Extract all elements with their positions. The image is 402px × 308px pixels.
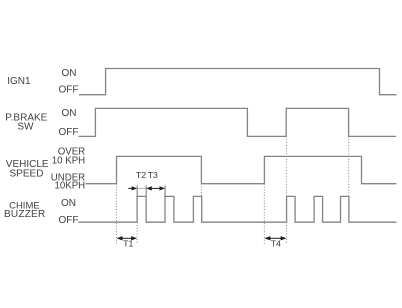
label T4 — [271, 239, 281, 249]
marker T2 T3 boundary verticals — [137, 186, 165, 197]
label OVER 10 KPH — [52, 147, 85, 167]
svg-text:SW: SW — [17, 122, 34, 133]
label CHIME BUZZER — [4, 200, 46, 220]
svg-text:ON: ON — [62, 68, 77, 79]
dotted extension pbrake rise2 x286.5 — [286, 136, 288, 244]
label P.BRAKE OFF — [59, 127, 79, 138]
label IGN1 — [7, 76, 31, 87]
label P.BRAKE SW — [5, 112, 47, 132]
label CHIME ON — [61, 198, 76, 209]
svg-text:10KPH: 10KPH — [54, 180, 85, 191]
wire P.BRAKE SW waveform — [79, 108, 397, 136]
svg-text:SPEED: SPEED — [10, 168, 44, 179]
svg-text:T1: T1 — [123, 239, 133, 249]
svg-text:OFF: OFF — [59, 127, 79, 138]
svg-text:IGN1: IGN1 — [7, 76, 31, 87]
dotted extension pbrake fall2 x348.7 — [348, 136, 350, 196]
svg-text:T4: T4 — [271, 239, 281, 249]
label T2 — [136, 170, 146, 180]
svg-text:T3: T3 — [148, 170, 158, 180]
marker T3 double arrow — [146, 186, 165, 190]
label CHIME OFF — [59, 215, 79, 226]
label P.BRAKE ON — [62, 108, 77, 119]
marker T2 span connector — [137, 187, 146, 189]
marker T2 external arrow — [128, 186, 137, 190]
label UNDER 10KPH — [51, 173, 85, 192]
dotted extension chime pulse1 rise x137.1 — [136, 222, 138, 244]
wire CHIME BUZZER waveform — [79, 196, 397, 222]
dotted extension vehicle-speed rise x116.5 — [116, 184, 118, 245]
label T3 — [148, 170, 158, 180]
svg-text:OFF: OFF — [59, 215, 79, 226]
svg-text:T2: T2 — [136, 170, 146, 180]
svg-text:ON: ON — [62, 108, 77, 119]
dotted extension vehicle-speed fall x201.4 — [200, 184, 202, 197]
label IGN1 OFF — [59, 85, 79, 96]
svg-text:ON: ON — [61, 198, 76, 209]
label VEHICLE SPEED — [6, 159, 49, 179]
label T1 — [123, 239, 133, 249]
label IGN1 ON — [62, 68, 77, 79]
svg-text:BUZZER: BUZZER — [4, 209, 46, 220]
svg-text:10 KPH: 10 KPH — [52, 156, 85, 167]
svg-text:OFF: OFF — [59, 85, 79, 96]
wire IGN1 waveform — [79, 69, 397, 95]
wire VEHICLE SPEED waveform — [86, 156, 397, 183]
marker T1 double arrow — [117, 236, 138, 240]
marker T4 double arrow — [264, 236, 286, 240]
dotted extension vehicle-speed rise2 x264.4 — [263, 184, 265, 245]
